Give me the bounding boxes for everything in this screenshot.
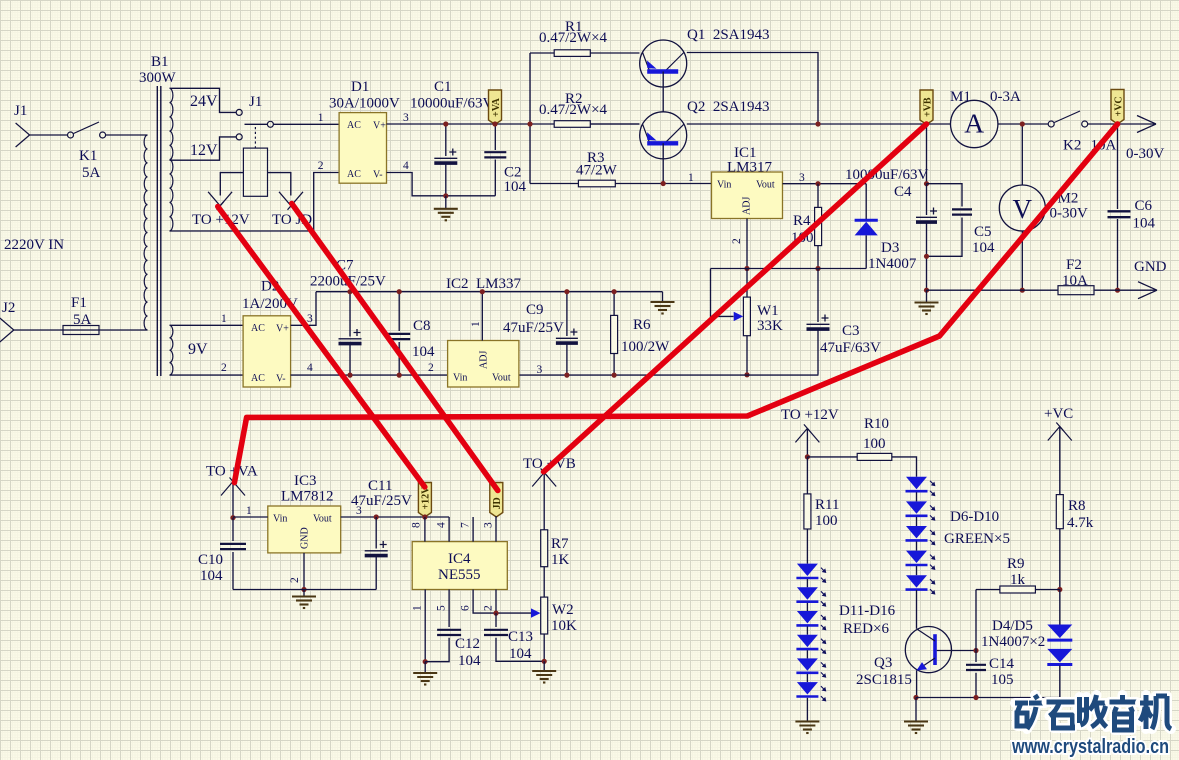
svg-text:ADJ: ADJ (742, 197, 753, 215)
junction R6 top (612, 289, 617, 294)
svg-text:R9: R9 (1007, 556, 1025, 572)
LED D12 (796, 587, 826, 606)
ground (NE555 pin1) (424, 662, 426, 673)
junction C1 top (443, 121, 448, 126)
red net line TO+12V to +12W flag (218, 124, 1118, 491)
svg-text:C10: C10 (198, 552, 223, 568)
svg-text:D6-D10: D6-D10 (950, 509, 999, 525)
wire NE555 pin4 (448, 517, 450, 542)
svg-text:Vout: Vout (756, 180, 775, 191)
regulator IC3 LM7812 (268, 506, 341, 553)
svg-text:C9: C9 (526, 302, 544, 318)
wire NE555 pin2 down (495, 590, 497, 614)
capacitor C7 (349, 292, 351, 337)
junction R10/R11 (805, 454, 810, 459)
svg-text:3: 3 (537, 364, 543, 376)
svg-text:104: 104 (200, 568, 223, 584)
wire F1 to primary bottom (99, 329, 148, 331)
junction M2 top (1020, 121, 1025, 126)
wire IC3 Vout to NE555 (341, 516, 449, 518)
LED D11 (796, 564, 826, 583)
junction C9 top (564, 289, 569, 294)
svg-text:2: 2 (428, 362, 434, 374)
LED D13 (796, 611, 826, 630)
relay dashed link (254, 127, 256, 148)
wire relay common to D1 pin 1 (273, 123, 339, 125)
svg-text:4.7k: 4.7k (1067, 515, 1094, 531)
voltmeter M2 (999, 185, 1045, 231)
junction Vout/R4 (815, 181, 820, 186)
svg-text:1N4007: 1N4007 (868, 256, 917, 272)
junction C9 bottom (564, 373, 569, 378)
diode D3 1N4007 (865, 184, 867, 219)
svg-text:R11: R11 (815, 497, 839, 513)
svg-text:C8: C8 (413, 318, 431, 334)
svg-text:Vout: Vout (313, 514, 332, 525)
svg-text:104: 104 (509, 646, 532, 662)
svg-text:8: 8 (411, 522, 423, 528)
junction C14 bottom (973, 695, 978, 700)
power flag +VB (920, 90, 933, 125)
svg-text:+VC: +VC (1113, 96, 1124, 116)
svg-text:300W: 300W (139, 70, 177, 86)
svg-text:C3: C3 (842, 323, 860, 339)
junction pin1 gnd (423, 659, 428, 664)
fuse F2 (1058, 286, 1094, 295)
ground (Q3) (915, 698, 917, 722)
svg-text:30A/1000V: 30A/1000V (329, 96, 400, 112)
bridge rectifier D2 (243, 316, 291, 387)
svg-text:M1: M1 (950, 89, 971, 105)
LED D9 (906, 551, 936, 570)
wire M2 branch (1021, 124, 1023, 185)
svg-text:100: 100 (815, 513, 838, 529)
ammeter M1 (951, 100, 998, 147)
junction pin8 (422, 514, 427, 519)
junction C8 top (397, 289, 402, 294)
svg-text:F1: F1 (71, 295, 87, 311)
svg-text:D4/D5: D4/D5 (992, 618, 1033, 634)
svg-text:10K: 10K (551, 618, 577, 634)
red net line TO+VB to +VB flag (544, 124, 927, 472)
wire relay coil left leg (220, 173, 243, 196)
svg-text:104: 104 (412, 344, 435, 360)
junction R6 bottom (612, 373, 617, 378)
svg-text:24V: 24V (190, 93, 218, 110)
svg-text:3: 3 (403, 112, 409, 124)
svg-text:0-30V: 0-30V (1050, 206, 1088, 222)
svg-text:V-: V- (276, 374, 286, 385)
wire adjust rail (711, 268, 867, 270)
svg-text:47uF/63V: 47uF/63V (820, 340, 881, 356)
port J1 (AC input line) (16, 123, 30, 147)
capacitor C2 (494, 124, 496, 150)
wire last red LED to ground (806, 698, 808, 721)
svg-text:2220V IN: 2220V IN (4, 237, 64, 253)
transistor Q2 2SA1943 (640, 112, 687, 159)
resistor R7 (541, 530, 548, 567)
switch K2 (1048, 111, 1088, 127)
svg-text:D1: D1 (351, 79, 369, 95)
resistor R11 (806, 457, 808, 494)
capacitor C14 (975, 590, 977, 663)
svg-text:100: 100 (863, 436, 886, 452)
svg-text:J1: J1 (249, 94, 262, 110)
svg-text:2SC1815: 2SC1815 (856, 672, 912, 688)
regulator IC2 LM337 (448, 341, 519, 388)
GND output arrow (1138, 282, 1157, 299)
wire IC3 Vin (233, 516, 268, 518)
junction IC3 GND (301, 587, 306, 592)
wire R1 branch vertical (529, 53, 531, 184)
wire main +V rail (K2 to output arrow) (1088, 123, 1156, 125)
wire IC2 ADJ up (481, 292, 483, 341)
ground (middle rail) (662, 292, 664, 302)
junction +VB rail x818 top (815, 121, 820, 126)
svg-text:1: 1 (412, 605, 424, 611)
svg-text:104: 104 (504, 179, 527, 195)
capacitor C4 (926, 184, 928, 215)
port arrow TO +VA (221, 478, 245, 496)
svg-text:C12: C12 (455, 636, 480, 652)
svg-text:5A: 5A (73, 312, 92, 328)
svg-text:www.crystalradio.cn: www.crystalradio.cn (1011, 735, 1169, 758)
svg-text:0-3A: 0-3A (990, 89, 1021, 105)
svg-text:W1: W1 (757, 303, 779, 319)
capacitor C1 (445, 124, 447, 156)
W1 wiper (711, 269, 734, 317)
junction C6 bottom (1115, 288, 1120, 293)
wire +VB down to C4 (926, 124, 928, 184)
svg-text:Vout: Vout (492, 373, 511, 384)
wire 12V tap (170, 137, 237, 160)
junction Q3 emitter (913, 695, 918, 700)
svg-text:J2: J2 (2, 300, 15, 316)
LED D7 (906, 501, 936, 520)
svg-text:10000uF/63V: 10000uF/63V (410, 96, 494, 112)
svg-text:4: 4 (307, 362, 313, 374)
svg-text:1N4007×2: 1N4007×2 (981, 634, 1045, 650)
wire -V bottom rail (IC2 Vout to C3 riser) (519, 374, 818, 376)
svg-text:Q3: Q3 (874, 655, 892, 671)
svg-text:C13: C13 (508, 629, 533, 645)
wire NE555 pin7 stub (472, 517, 474, 542)
svg-text:3: 3 (483, 522, 495, 528)
switch K1 (68, 122, 106, 138)
svg-text:Q2 2SA1943: Q2 2SA1943 (687, 99, 770, 115)
resistor R8 (1056, 495, 1063, 529)
power flag +12W (418, 483, 431, 518)
svg-text:3: 3 (799, 172, 805, 184)
svg-text:+VC: +VC (1044, 406, 1073, 422)
svg-text:104: 104 (458, 653, 481, 669)
wire M2 bottom (1021, 231, 1023, 290)
svg-text:W2: W2 (552, 602, 574, 618)
svg-text:3: 3 (307, 313, 313, 325)
power flag +VC (1111, 90, 1124, 125)
wire NE555 pin3 to JD flag (495, 516, 497, 542)
wire LED column to Q3 collector (916, 590, 918, 629)
svg-text:100/2W: 100/2W (621, 339, 670, 355)
svg-text:2: 2 (221, 362, 227, 374)
svg-text:47uF/25V: 47uF/25V (503, 320, 564, 336)
junction IC3 Vin (230, 515, 235, 520)
junction W2 bottom (542, 659, 547, 664)
svg-text:2: 2 (483, 605, 495, 611)
junction +VB (924, 121, 929, 126)
svg-text:105: 105 (991, 672, 1014, 688)
junction base/C14 (973, 648, 978, 653)
svg-text:K2: K2 (1063, 138, 1081, 154)
port arrow +VC (1048, 423, 1072, 441)
wire Q3 base (937, 650, 976, 652)
junction W1 bottom (744, 372, 749, 377)
wire Q1 collector to +VB rail (687, 53, 818, 125)
output arrow 0-30V (1137, 116, 1156, 133)
svg-text:4: 4 (403, 160, 409, 172)
svg-text:33K: 33K (757, 318, 783, 334)
capacitor C13 (495, 613, 497, 627)
svg-text:10A: 10A (1062, 273, 1088, 289)
junction C4 top (924, 181, 929, 186)
junction C5 bottom (924, 254, 929, 259)
junction pin2/6 (493, 611, 498, 616)
svg-text:7: 7 (460, 522, 472, 528)
svg-text:AC: AC (251, 373, 265, 384)
svg-text:47uF/25V: 47uF/25V (351, 493, 412, 509)
svg-text:0.47/2W×4: 0.47/2W×4 (539, 102, 608, 118)
diode D5 (1047, 649, 1072, 665)
svg-text:C5: C5 (974, 224, 992, 240)
wire relay coil right leg (268, 173, 291, 196)
svg-text:C1: C1 (434, 79, 452, 95)
svg-text:AC: AC (347, 120, 361, 131)
port J2 (AC input neutral) (0, 318, 14, 342)
LED D16 (796, 682, 826, 701)
wire J2 to F1 (14, 329, 63, 331)
watermark 矿石收音机 (1015, 695, 1045, 729)
wire Q1/Q2 base down to R3 node (662, 72, 664, 184)
LED D10 (906, 575, 936, 594)
svg-text:+VB: +VB (922, 97, 933, 117)
junction +VC (1115, 121, 1120, 126)
svg-text:AC: AC (347, 169, 361, 180)
junction ADJ top (480, 289, 485, 294)
svg-text:J1: J1 (14, 103, 27, 119)
svg-text:1: 1 (221, 313, 227, 325)
svg-text:F2: F2 (1066, 257, 1082, 273)
wire -V top rail (316, 291, 663, 293)
wire J1 to K1 (30, 134, 68, 136)
svg-text:AC: AC (251, 323, 265, 334)
potentiometer W1 33K (746, 269, 748, 298)
resistor R10 (807, 456, 857, 458)
svg-text:C11: C11 (368, 478, 392, 494)
junction R8/R9/D4 (1057, 587, 1062, 592)
svg-text:2: 2 (318, 160, 324, 172)
svg-text:RED×6: RED×6 (843, 621, 889, 637)
relay coil box JD (243, 148, 267, 196)
resistor R2 (554, 121, 590, 128)
transistor Q3 2SC1815 (905, 627, 951, 673)
svg-text:GREEN×5: GREEN×5 (944, 531, 1010, 547)
junction C7 bottom (347, 373, 352, 378)
ground (red LEDs) (795, 722, 819, 734)
svg-text:C6: C6 (1135, 198, 1153, 214)
svg-text:Q1 2SA1943: Q1 2SA1943 (687, 27, 770, 43)
wire IC1 Vout to D3 (783, 183, 867, 185)
capacitor C8 (398, 292, 400, 331)
svg-text:5: 5 (436, 605, 448, 611)
LED D14 (796, 635, 826, 654)
ground (IC3) (303, 590, 305, 597)
wire emitter rail (916, 697, 1060, 699)
wire D1 V- return (387, 173, 496, 196)
transformer B1 secondary winding (9V) (170, 325, 173, 375)
transformer B1 primary winding (144, 135, 147, 330)
wire GND rail (927, 289, 1158, 291)
svg-text:9V: 9V (188, 341, 208, 358)
svg-text:LM7812: LM7812 (281, 489, 334, 505)
svg-text:IC3: IC3 (294, 473, 317, 489)
capacitor C10 (232, 518, 234, 541)
junction R4 bottom (815, 266, 820, 271)
svg-text:5A: 5A (82, 165, 101, 181)
svg-text:R10: R10 (864, 416, 889, 432)
capacitor C6 (1117, 124, 1119, 209)
junction ground node right (924, 288, 929, 293)
power flag +VA (489, 90, 502, 125)
ground (W2) (543, 661, 545, 670)
capacitor C5 branch (927, 184, 963, 207)
LED D8 (906, 526, 936, 545)
red net line +VC to TO+VA (234, 124, 1117, 483)
svg-text:104: 104 (1133, 216, 1156, 232)
relay contact (24V) (236, 109, 242, 115)
wire IC3 GND down (303, 553, 305, 590)
ground (C4/C5) (926, 290, 928, 302)
transformer B1 core (157, 86, 161, 376)
svg-text:GND: GND (300, 527, 311, 549)
LED D6 (906, 477, 936, 496)
relay lever wire (245, 123, 268, 125)
junction ADJ rail (744, 266, 749, 271)
svg-text:1: 1 (318, 112, 324, 124)
svg-text:A: A (964, 108, 984, 139)
svg-text:R7: R7 (551, 536, 569, 552)
svg-text:104: 104 (972, 240, 995, 256)
svg-text:1: 1 (246, 505, 252, 517)
junction C11 top (374, 514, 379, 519)
svg-text:Vin: Vin (717, 180, 731, 191)
regulator IC1 LM317 (712, 172, 783, 219)
svg-text:V+: V+ (373, 121, 386, 132)
svg-text:TO +VA: TO +VA (206, 464, 258, 480)
junction +VA / C2 (492, 121, 497, 126)
wire main +V rail (D1 V+ to Q2) (387, 123, 640, 125)
resistor R9 (976, 589, 1000, 591)
wire 9V winding to D2 (170, 325, 244, 375)
ground (C1) (445, 196, 447, 209)
wire NE555 pin6 down (473, 590, 532, 614)
svg-text:1: 1 (470, 321, 482, 327)
wire IC3 bottom rail (233, 589, 376, 591)
resistor R1 (530, 52, 554, 54)
junction main rail x530 (527, 121, 532, 126)
wire NE555 pin1 down (424, 590, 426, 662)
svg-text:NE555: NE555 (438, 567, 481, 583)
svg-text:IC4: IC4 (448, 551, 471, 567)
svg-text:C14: C14 (989, 656, 1015, 672)
svg-text:6: 6 (460, 605, 472, 611)
red net line TO JD to JD flag (292, 204, 498, 491)
transistor Q1 2SA1943 (640, 40, 687, 87)
wire IC1 ADJ down (746, 219, 748, 269)
svg-text:R8: R8 (1068, 498, 1086, 514)
svg-text:V+: V+ (276, 324, 289, 335)
svg-text:+VA: +VA (491, 97, 502, 117)
svg-text:TO +12V: TO +12V (781, 407, 839, 423)
wire NE555 pin8 (424, 517, 426, 542)
junction M2 bottom (1020, 288, 1025, 293)
svg-text:JD: JD (492, 497, 503, 509)
svg-text:1k: 1k (1010, 572, 1026, 588)
junction C7 top (347, 289, 352, 294)
svg-text:C4: C4 (894, 184, 912, 200)
fuse F1 (63, 326, 99, 335)
wire D2 V+ up to -V rail (291, 292, 316, 326)
wire 24V tap (170, 88, 237, 112)
diode D4 (1059, 590, 1061, 625)
capacitor C9 (566, 292, 568, 336)
port arrow TO +12V (relay supply) (208, 192, 232, 210)
svg-text:10000uF/63V: 10000uF/63V (845, 167, 929, 183)
capacitor C3 (817, 269, 819, 323)
svg-text:V-: V- (373, 170, 383, 181)
svg-text:K1: K1 (79, 148, 97, 164)
svg-text:2: 2 (289, 577, 301, 583)
svg-text:2: 2 (731, 238, 743, 244)
svg-text:12V: 12V (190, 142, 218, 159)
svg-text:1K: 1K (551, 552, 570, 568)
svg-text:V: V (1013, 194, 1033, 224)
svg-text:0-30V: 0-30V (1126, 146, 1164, 162)
port arrow TO +12V (LED section) (795, 424, 819, 442)
svg-text:B1: B1 (151, 54, 169, 70)
junction C8 bottom (397, 373, 402, 378)
svg-text:0.47/2W×4: 0.47/2W×4 (539, 30, 608, 46)
svg-text:R4: R4 (793, 213, 811, 229)
flag JD (NE555) (490, 483, 503, 518)
potentiometer W2 10K (541, 597, 548, 634)
relay common contact J1 (267, 121, 273, 127)
wire Q3 emitter down (916, 670, 918, 697)
svg-text:1: 1 (688, 172, 694, 184)
svg-text:ADJ: ADJ (479, 351, 490, 369)
capacitor C11 (375, 517, 377, 549)
svg-text:GND: GND (1134, 259, 1167, 275)
resistor R6 (613, 292, 615, 316)
resistor R4 (817, 184, 819, 208)
svg-text:47/2W: 47/2W (576, 163, 618, 179)
wire K1 to primary top (106, 134, 148, 136)
W2 wiper (531, 608, 541, 617)
port arrow TO +VB (532, 469, 556, 487)
junction C1 bottom / ground node (443, 193, 448, 198)
svg-text:4: 4 (436, 522, 448, 528)
svg-text:Vin: Vin (273, 514, 287, 525)
timer IC4 NE555 (412, 542, 507, 590)
